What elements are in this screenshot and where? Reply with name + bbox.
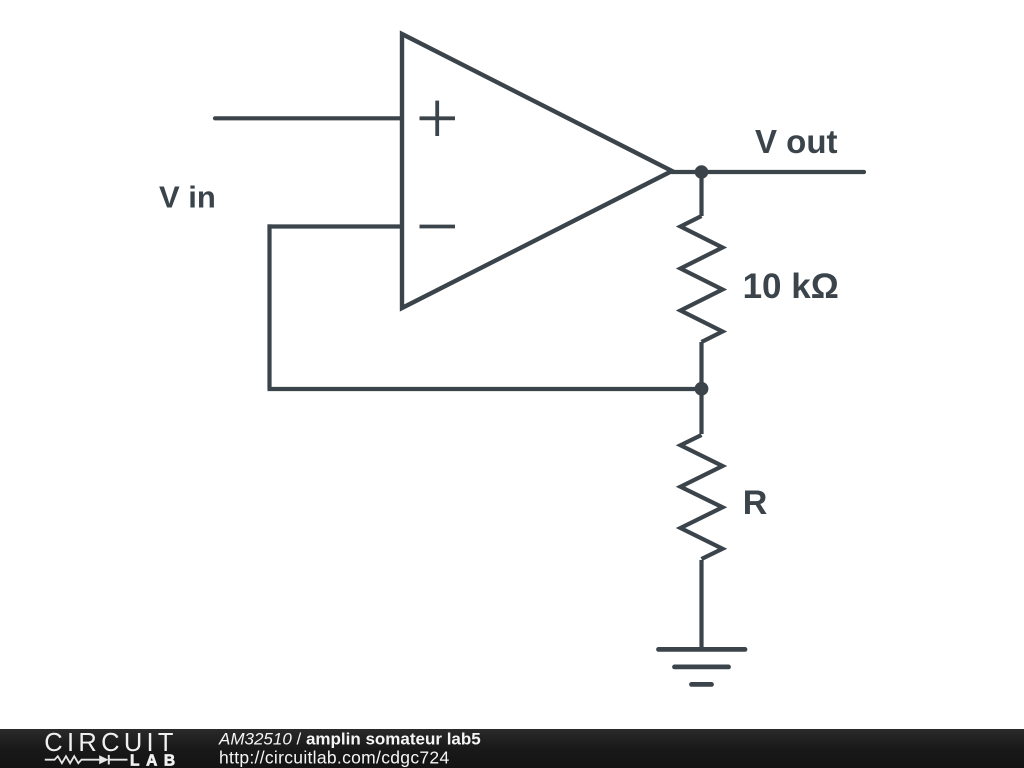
svg-text:10 kΩ: 10 kΩ bbox=[743, 267, 839, 306]
wire node to resistor R2 bbox=[699, 389, 703, 434]
svg-text:LAB: LAB bbox=[130, 753, 182, 768]
svg-text:http://circuitlab.com/cdgc724: http://circuitlab.com/cdgc724 bbox=[219, 748, 449, 768]
node output junction bbox=[695, 165, 709, 179]
svg-text:R: R bbox=[743, 484, 768, 522]
resistor R1 10 kΩ bbox=[681, 216, 723, 342]
ground bbox=[659, 649, 746, 684]
op-amp U1 bbox=[402, 34, 672, 308]
wire R2 to ground bbox=[699, 560, 703, 649]
wire feedback vertical bbox=[267, 224, 271, 389]
wire output bbox=[672, 170, 864, 174]
svg-text:V out: V out bbox=[755, 123, 837, 160]
wire feedback horizontal bbox=[268, 387, 702, 391]
wire output to resistor R1 bbox=[699, 172, 703, 216]
logo schematic resistor and diode bbox=[45, 755, 128, 765]
svg-text:V in: V in bbox=[159, 179, 216, 214]
wire R1 to feedback node bbox=[699, 342, 703, 389]
footer bar bbox=[0, 729, 1024, 768]
node feedback junction bbox=[695, 382, 709, 396]
svg-text:AM32510 / amplin somateur lab5: AM32510 / amplin somateur lab5 bbox=[218, 730, 481, 749]
resistor R2 R bbox=[681, 435, 723, 559]
wire inverting input bbox=[268, 224, 403, 228]
wire non-inverting input bbox=[215, 116, 402, 120]
